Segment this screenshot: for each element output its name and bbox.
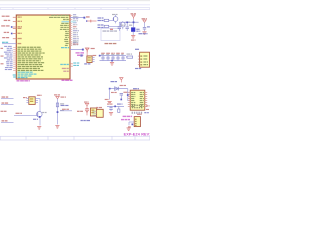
svg-text:EXP-EZ4 REV1: EXP-EZ4 REV1 bbox=[124, 133, 150, 137]
